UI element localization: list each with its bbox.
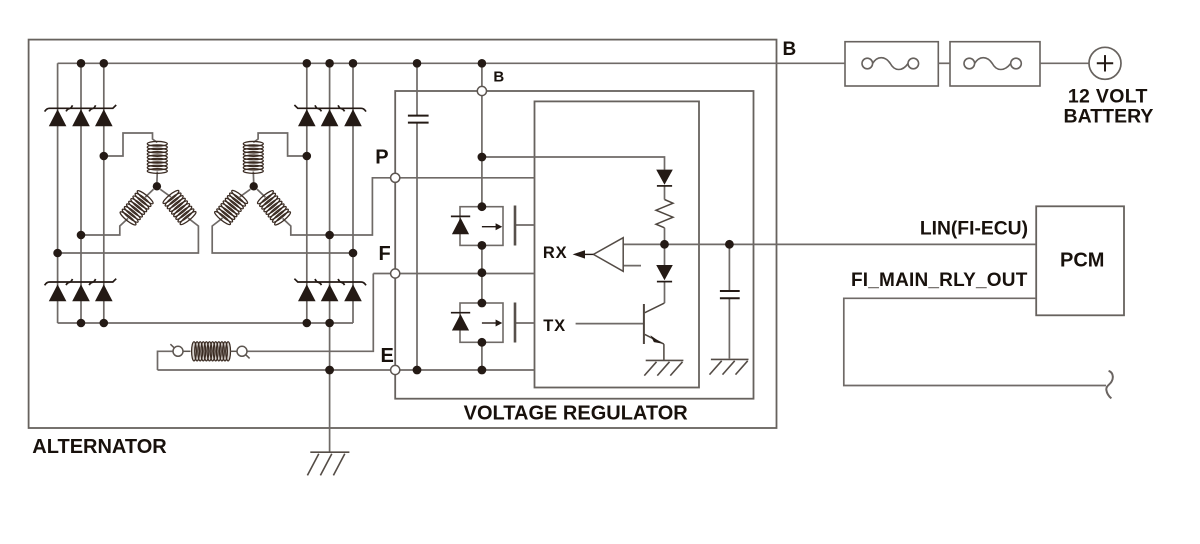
- svg-text:E: E: [381, 345, 394, 367]
- svg-text:ALTERNATOR: ALTERNATOR: [32, 436, 167, 458]
- svg-text:P: P: [375, 146, 388, 168]
- svg-text:F: F: [379, 243, 391, 265]
- svg-text:B: B: [783, 39, 797, 60]
- svg-text:LIN(FI-ECU): LIN(FI-ECU): [920, 218, 1028, 239]
- svg-text:RX: RX: [543, 244, 568, 262]
- svg-text:12 VOLT: 12 VOLT: [1068, 85, 1148, 107]
- svg-text:B: B: [493, 69, 504, 86]
- svg-text:TX: TX: [543, 317, 566, 335]
- svg-text:VOLTAGE REGULATOR: VOLTAGE REGULATOR: [464, 402, 689, 424]
- svg-text:PCM: PCM: [1060, 250, 1104, 272]
- svg-text:BATTERY: BATTERY: [1064, 106, 1154, 128]
- svg-text:FI_MAIN_RLY_OUT: FI_MAIN_RLY_OUT: [851, 270, 1028, 291]
